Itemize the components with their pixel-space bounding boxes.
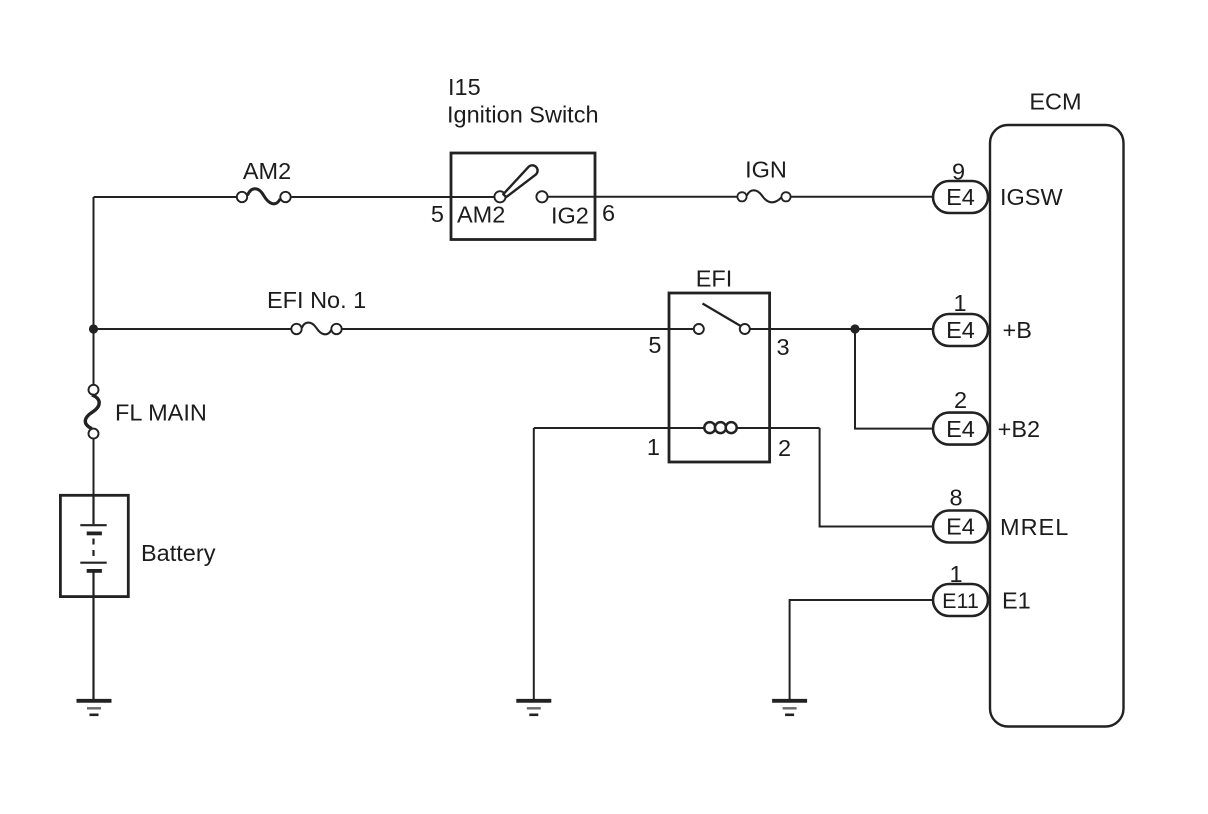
battery dashed center link (92, 539, 94, 560)
svg-text:EFI No. 1: EFI No. 1 (267, 287, 366, 313)
svg-text:1: 1 (949, 561, 962, 587)
svg-text:E4: E4 (946, 416, 975, 442)
svg-text:+B: +B (1003, 317, 1032, 343)
svg-text:2: 2 (954, 387, 967, 413)
wire: relay coil pin 2 lead (right) (737, 427, 820, 429)
EFI relay switch blade (703, 304, 742, 327)
wire: battery rail top horizontal (left end to fuse AM2) (94, 196, 237, 198)
wire: fuse AM2 to ignition switch I15 (291, 196, 495, 198)
battery plate positive long (top) (80, 524, 106, 526)
svg-text:9: 9 (952, 159, 965, 185)
node: +B branch junction (850, 324, 859, 333)
wire: FL MAIN to battery (93, 439, 95, 496)
battery plate negative short (top) (87, 532, 102, 536)
svg-text:I15: I15 (448, 74, 481, 100)
wire: battery negative to ground (92, 572, 94, 699)
fuse AM2 (237, 189, 291, 204)
connector E4 pin 9 (IGSW) (933, 181, 988, 213)
wire: relay contact 3 to +B junction and connector E4 pin 1 (750, 328, 933, 330)
fusible link FL MAIN (85, 385, 99, 439)
svg-text:5: 5 (431, 201, 444, 227)
EFI relay contact 3 (740, 324, 750, 334)
relay EFI box (669, 293, 770, 462)
wire: I15 to fuse IGN (548, 196, 738, 198)
svg-text:ECM: ECM (1029, 89, 1081, 115)
svg-text:FL MAIN: FL MAIN (115, 400, 207, 426)
wire: rail junction to fuse EFI No.1 (94, 328, 292, 330)
svg-text:AM2: AM2 (243, 158, 291, 184)
ground (EFI relay coil) (516, 701, 551, 715)
svg-text:AM2: AM2 (457, 202, 505, 228)
I15 terminal 6 contact (536, 191, 547, 202)
wire: fuse IGN to connector E4 pin 9 (791, 196, 933, 198)
wire: relay coil pin 1 to ground (533, 428, 535, 699)
svg-text:Ignition Switch: Ignition Switch (447, 102, 599, 128)
svg-text:MREL: MREL (1000, 514, 1069, 540)
svg-text:1: 1 (647, 434, 660, 460)
wire: connector E11 pin 1 (E1) left and down to ground (790, 600, 933, 699)
svg-text:E11: E11 (942, 589, 979, 613)
connector E4 pin 2 (+B2) (933, 413, 988, 445)
connector E4 pin 8 (MREL) (933, 511, 988, 543)
svg-text:E4: E4 (946, 184, 975, 210)
fuse IGN (737, 190, 790, 202)
svg-text:6: 6 (602, 200, 615, 226)
battery plate positive long (bottom) (80, 562, 106, 564)
svg-text:8: 8 (949, 485, 962, 511)
svg-text:E1: E1 (1002, 588, 1031, 614)
left vertical rail from top wire down to FL MAIN (93, 197, 95, 385)
battery internal lead from top (92, 496, 94, 524)
ground (E1) (772, 701, 807, 715)
svg-text:E4: E4 (946, 514, 975, 540)
wire: relay pin 2 down and right to connector E4 pin 8 (MREL) (820, 428, 933, 527)
battery box (60, 495, 128, 596)
battery plate negative short (bottom) (87, 569, 102, 573)
EFI relay contact 5 (694, 324, 704, 334)
wire: junction down and right to connector E4 pin 2 (+B2) (855, 329, 933, 429)
ground (battery) (77, 701, 112, 715)
svg-text:3: 3 (777, 334, 790, 360)
svg-text:IGSW: IGSW (1000, 184, 1063, 210)
svg-text:+B2: +B2 (998, 416, 1040, 442)
wire: fuse EFI No.1 to EFI relay contact 5 (342, 328, 694, 330)
svg-text:IGN: IGN (745, 157, 787, 183)
I15 terminal 5 contact (494, 191, 505, 202)
I15 switch blade (503, 165, 537, 197)
svg-text:5: 5 (648, 332, 661, 358)
svg-text:IG2: IG2 (551, 203, 589, 229)
connector E4 pin 1 (+B) (933, 314, 988, 346)
svg-text:Battery: Battery (141, 540, 216, 566)
svg-text:2: 2 (778, 435, 791, 461)
fuse EFI No. 1 (291, 323, 341, 335)
relay coil (704, 422, 736, 433)
svg-text:EFI: EFI (696, 266, 733, 292)
wire: relay coil pin 1 lead (left) (534, 427, 705, 429)
ignition switch I15 box (451, 153, 595, 240)
svg-text:E4: E4 (946, 317, 975, 343)
node: junction of rail and EFI No.1 wire (89, 324, 98, 333)
ECM box (990, 125, 1124, 727)
svg-text:1: 1 (953, 290, 966, 316)
connector E11 pin 1 (E1) (933, 584, 988, 616)
